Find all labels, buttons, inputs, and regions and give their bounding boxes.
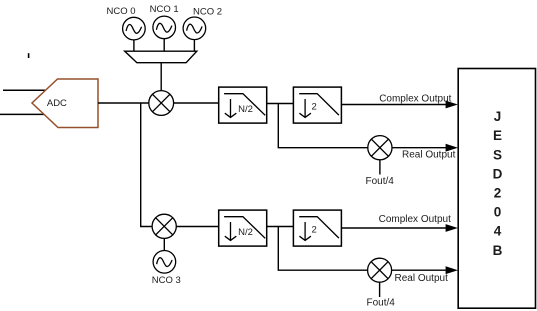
wire: real output line (bottom): [392, 269, 447, 271]
halfband filter block (down 2) top: [293, 87, 341, 123]
wire: ADC output to mixer 1: [98, 102, 149, 104]
svg-text:N/2: N/2: [238, 104, 253, 115]
svg-text:Fout/4: Fout/4: [366, 176, 395, 187]
mixer 1 (multiplier): [149, 91, 174, 116]
oscillator NCO 1: [153, 16, 176, 39]
svg-text:2: 2: [312, 102, 317, 113]
svg-text:NCO 2: NCO 2: [193, 7, 222, 18]
wire: Fout/4 stub below mixer 4: [379, 282, 381, 297]
oscillator NCO 2: [183, 17, 206, 40]
oscillator NCO 0: [123, 17, 146, 40]
wire: mux to mixer 1: [160, 63, 162, 91]
mixer 2 (real output, top): [368, 136, 392, 160]
arrowhead: real output (top) into JESD204B: [446, 144, 458, 152]
oscillator NCO 3: [153, 250, 176, 273]
decimation filter block DDC1 (down N/2): [219, 87, 267, 123]
wire: tap from bottom chain down to real-output mixer: [278, 227, 367, 271]
wire: analog input line 1 into ADC: [3, 89, 45, 91]
svg-text:2: 2: [494, 186, 502, 201]
svg-text:S: S: [493, 147, 502, 162]
wire: analog input line 2 into ADC: [0, 113, 46, 115]
svg-text:Fout/4: Fout/4: [367, 298, 396, 309]
svg-text:NCO 3: NCO 3: [152, 275, 181, 286]
svg-text:E: E: [493, 128, 502, 143]
svg-text:J: J: [494, 109, 502, 124]
svg-text:0: 0: [494, 205, 502, 220]
wire: NCO 2 to mux: [193, 40, 195, 52]
wire: decimation filter 1 to halfband filter 1: [267, 103, 294, 105]
arrowhead: complex output (top) into JESD204B: [446, 101, 458, 109]
svg-text:N/2: N/2: [238, 227, 253, 238]
wire: real output line (top): [392, 147, 447, 149]
mixer 3 (second chain input mixer): [152, 214, 176, 238]
svg-text:ADC: ADC: [47, 98, 67, 109]
JESD204B interface block: [458, 69, 535, 309]
svg-text:2: 2: [312, 225, 317, 236]
svg-text:Real Output: Real Output: [402, 149, 456, 160]
wire: NCO 0 to mux: [133, 40, 135, 51]
svg-text:Real Output: Real Output: [395, 273, 449, 284]
svg-text:B: B: [493, 243, 503, 258]
wire: NCO 1 to mux: [163, 39, 165, 52]
svg-text:Complex Output: Complex Output: [379, 93, 451, 104]
svg-text:NCO 1: NCO 1: [150, 4, 179, 15]
wire: Fout/4 stub below mixer 2: [379, 160, 381, 175]
svg-text:D: D: [493, 166, 503, 181]
arrowhead: complex output (bottom) into JESD204B: [446, 224, 458, 232]
wire: mixer 1 to decimation filter 1: [174, 102, 219, 104]
stray tick mark: [28, 53, 30, 58]
wire: mixer 3 to NCO 3: [163, 238, 165, 250]
arrowhead: real output (bottom) into JESD204B: [446, 266, 458, 274]
svg-text:Complex Output: Complex Output: [379, 214, 451, 225]
svg-text:4: 4: [494, 224, 502, 239]
wire: mixer 3 to decimation filter 2: [176, 226, 218, 228]
svg-text:NCO 0: NCO 0: [106, 6, 135, 17]
wire: complex output line (bottom): [341, 227, 446, 229]
decimation filter block DDC2 (down N/2) bottom: [219, 210, 267, 246]
mixer 4 (real output, bottom): [368, 258, 392, 282]
halfband filter block (down 2) bottom: [293, 210, 341, 246]
wire: tap from top chain down to real-output mixer: [278, 104, 367, 148]
wire: junction drop to second signal chain: [141, 103, 153, 227]
wire: complex output line (top): [341, 104, 446, 106]
ADC converter block: [32, 79, 98, 128]
NCO selector mux: [125, 51, 197, 63]
wire: decimation filter 2 to halfband filter 2: [267, 226, 294, 228]
